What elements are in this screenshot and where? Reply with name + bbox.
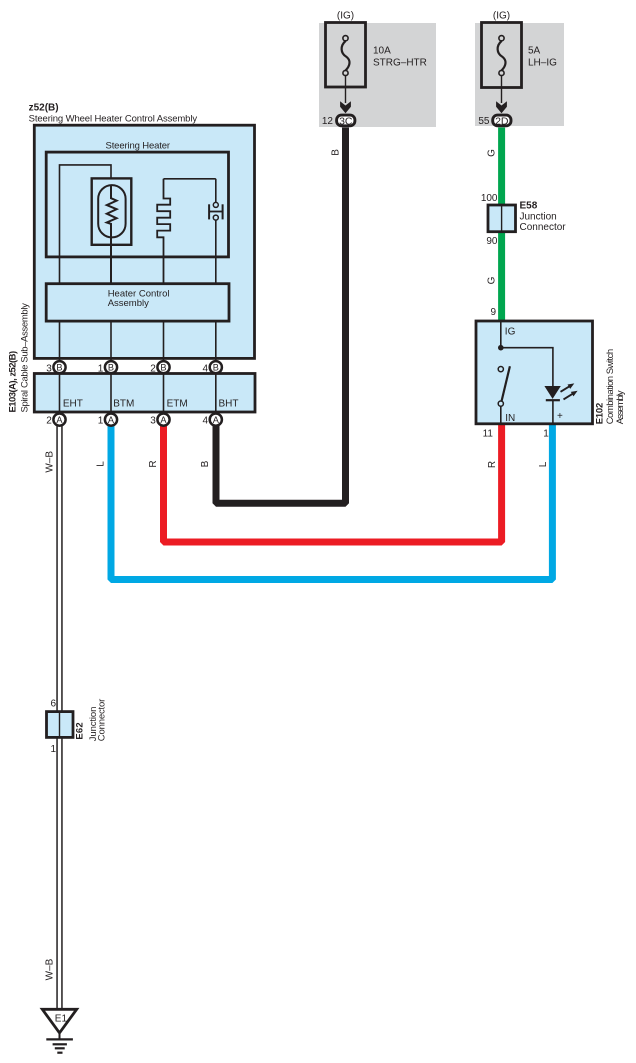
svg-text:Connector: Connector	[97, 699, 108, 742]
LED D1	[544, 383, 577, 423]
wire EHT internal	[60, 165, 112, 284]
arrow into connector 2D	[496, 101, 507, 113]
svg-text:100: 100	[481, 193, 498, 204]
svg-text:A: A	[160, 415, 167, 425]
steering wheel heater control assembly box z52(B)	[34, 125, 254, 358]
svg-text:STRG–HTR: STRG–HTR	[373, 58, 427, 69]
svg-text:10A: 10A	[373, 46, 391, 57]
svg-text:A: A	[56, 415, 63, 425]
wire L (blue: BTM to E102 pin 1)	[111, 424, 552, 580]
svg-text:W–B: W–B	[44, 958, 55, 980]
svg-text:90: 90	[486, 236, 498, 247]
svg-text:12: 12	[322, 116, 334, 127]
svg-text:IG: IG	[505, 327, 516, 338]
svg-text:+: +	[557, 411, 563, 422]
thermostat element meander	[157, 179, 170, 284]
svg-text:Spiral Cable Sub–Assembly: Spiral Cable Sub–Assembly	[19, 303, 30, 413]
connector pin 3 A	[150, 414, 169, 427]
svg-text:B: B	[56, 362, 62, 372]
rotated label E62 Junction Connector	[75, 699, 108, 742]
svg-text:Connector: Connector	[520, 222, 567, 233]
push switch SW1	[209, 179, 223, 284]
svg-text:G: G	[487, 276, 498, 284]
connector pin 2 B	[150, 361, 169, 374]
label E58 Junction Connector	[520, 201, 567, 233]
label Heater Control Assembly	[108, 288, 170, 309]
svg-text:A: A	[213, 415, 220, 425]
svg-text:E103(A), z52(B): E103(A), z52(B)	[8, 351, 19, 413]
svg-text:BHT: BHT	[219, 398, 239, 409]
wire R (red: ETM to E102 pin 11)	[164, 424, 502, 542]
svg-text:B: B	[331, 149, 342, 156]
svg-text:R: R	[148, 460, 159, 467]
svg-text:3: 3	[150, 415, 156, 426]
svg-text:4: 4	[203, 415, 209, 426]
svg-text:E62: E62	[75, 722, 86, 739]
svg-text:(IG): (IG)	[337, 11, 354, 22]
wire IG internal	[500, 322, 502, 348]
connector pin 1 B	[98, 361, 117, 374]
labels EHT BTM ETM BHT	[63, 398, 239, 409]
connector oval 2D pin 55	[493, 115, 511, 127]
spiral cable sub-assembly box E103(A) z52(B)	[34, 374, 255, 413]
svg-text:LH–IG: LH–IG	[528, 58, 557, 69]
ground E1	[42, 1009, 76, 1052]
heater element R1 outer box	[92, 178, 132, 244]
rotated label E103(A), z52(B) Spiral Cable Sub-Assembly	[8, 303, 31, 413]
svg-text:E1: E1	[55, 1014, 68, 1025]
svg-text:L: L	[96, 461, 107, 467]
svg-text:B: B	[200, 460, 211, 467]
wire W-B (EHT ground run)	[56, 425, 62, 1009]
svg-text:2D: 2D	[495, 115, 509, 127]
wire to LED branch	[501, 348, 553, 386]
connector pin 4 A	[203, 414, 222, 427]
svg-text:A: A	[108, 415, 115, 425]
svg-text:G: G	[487, 149, 498, 157]
svg-text:EHT: EHT	[63, 398, 83, 409]
svg-text:1: 1	[98, 415, 104, 426]
svg-text:3C: 3C	[339, 115, 353, 127]
junction connector E58	[488, 205, 516, 232]
svg-text:6: 6	[50, 699, 56, 710]
svg-text:11: 11	[483, 429, 494, 440]
heater control assembly box	[46, 284, 229, 321]
wire G (green: fuse 2D to E102 IG)	[498, 128, 505, 322]
svg-text:IN: IN	[505, 413, 515, 424]
svg-text:2: 2	[46, 415, 52, 426]
svg-text:BTM: BTM	[113, 398, 134, 409]
connector pin 3 B	[46, 361, 65, 374]
svg-text:1: 1	[543, 428, 549, 439]
combination switch assembly box E102	[476, 321, 593, 424]
connector pin 2 A	[46, 414, 65, 427]
connector pin 4 B	[203, 361, 222, 374]
svg-text:Assembly: Assembly	[108, 298, 149, 309]
svg-text:B: B	[160, 362, 166, 372]
svg-text:R: R	[487, 461, 498, 468]
fuse block shading F2	[475, 23, 564, 126]
svg-text:5A: 5A	[528, 46, 541, 57]
heater element R1 zigzag	[107, 185, 117, 284]
connector pin 1 A	[98, 414, 117, 427]
svg-text:B: B	[108, 362, 114, 372]
svg-text:Steering Wheel Heater Control: Steering Wheel Heater Control Assembly	[29, 113, 198, 124]
wire ETM internal	[164, 178, 216, 180]
wires HCA to box bottom	[60, 321, 216, 362]
svg-text:Assembly: Assembly	[615, 390, 626, 424]
svg-text:(IG): (IG)	[493, 11, 510, 22]
svg-text:z52(B): z52(B)	[29, 102, 59, 113]
arrow into connector 3C	[340, 101, 351, 113]
connector oval 3C pin 12	[337, 115, 355, 127]
svg-text:W–B: W–B	[44, 451, 55, 473]
junction dot	[498, 345, 504, 351]
heater element R1 stadium	[98, 185, 125, 237]
svg-text:55: 55	[478, 116, 490, 127]
switch SW2 contacts	[498, 366, 510, 423]
svg-text:1: 1	[50, 744, 56, 755]
svg-text:L: L	[538, 461, 549, 467]
svg-text:Steering Heater: Steering Heater	[106, 140, 171, 151]
svg-text:ETM: ETM	[167, 398, 188, 409]
fuse F1 10A STRG-HTR	[326, 23, 366, 104]
wires through spiral cable box	[60, 374, 216, 415]
fuse block shading F1	[319, 23, 436, 127]
svg-text:E58: E58	[520, 201, 538, 212]
fuse F2 5A LH-IG	[482, 23, 522, 104]
svg-text:9: 9	[490, 307, 496, 318]
wire B (black: BHT to fuse 3C)	[216, 128, 346, 504]
svg-text:B: B	[213, 362, 219, 372]
steering heater box	[46, 152, 228, 257]
junction connector E62	[47, 712, 74, 738]
rotated label E102 Combination Switch Assembly	[595, 349, 626, 425]
svg-text:Junction: Junction	[520, 211, 557, 222]
